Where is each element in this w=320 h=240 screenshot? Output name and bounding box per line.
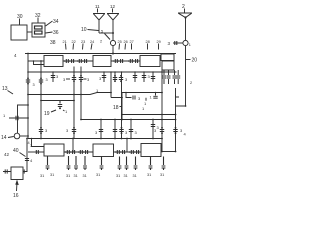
column x153 lower bbox=[152, 120, 154, 139]
label left of SW1 bbox=[100, 40, 102, 44]
svg-text:21: 21 bbox=[63, 40, 67, 44]
middle lattice wire A bbox=[28, 93, 111, 95]
label mid-right bbox=[138, 96, 141, 101]
series cap B2c bbox=[131, 150, 133, 154]
cap stub x155.5 bbox=[153, 93, 157, 99]
series cap C2b bbox=[121, 59, 123, 63]
antenna ANT2 label 12 bbox=[110, 4, 116, 9]
shunt column X5 (x121.5) bbox=[121, 72, 123, 139]
lower lattice wire D bbox=[122, 114, 176, 116]
lower cap on X5 bbox=[119, 130, 123, 132]
label row tick 26 bbox=[157, 40, 161, 44]
svg-text:3: 3 bbox=[138, 96, 141, 101]
svg-text:10: 10 bbox=[81, 27, 87, 33]
svg-text:3: 3 bbox=[95, 130, 98, 135]
series cap C2a bbox=[115, 59, 117, 63]
leader label 13 bbox=[8, 91, 14, 95]
bottom stub S7 bbox=[118, 157, 122, 171]
wire P1 to left bus bbox=[20, 135, 28, 137]
label 40 bbox=[13, 148, 19, 154]
label right of X5 bbox=[125, 77, 128, 82]
svg-text:12: 12 bbox=[110, 4, 116, 9]
antenna ANT2 bbox=[107, 14, 119, 41]
svg-text:3: 3 bbox=[30, 143, 33, 148]
filter F1 bbox=[44, 56, 63, 67]
svg-text:2: 2 bbox=[190, 81, 192, 85]
small mark right of cap x60 bbox=[65, 109, 68, 114]
column X7 (x162) bbox=[161, 70, 163, 152]
leader for label 34 bbox=[46, 21, 53, 26]
series cap C2d bbox=[136, 59, 138, 63]
label 42 bbox=[4, 152, 10, 157]
stub under F2 bbox=[103, 72, 105, 82]
filter F5 bbox=[93, 144, 114, 157]
wire ANT1 to ANT2 column bbox=[99, 32, 113, 34]
svg-text:3: 3 bbox=[148, 74, 151, 79]
label row tick 24c bbox=[130, 40, 134, 44]
duplexer shunt cap d bbox=[176, 70, 180, 84]
label 15a bbox=[144, 101, 147, 106]
label 30 bbox=[17, 14, 23, 20]
label 18 bbox=[113, 105, 119, 111]
stub left of connector with cap bbox=[173, 42, 183, 44]
label left of X2 cap bbox=[63, 77, 66, 82]
wire F2-F3 bbox=[111, 60, 140, 62]
lower lattice wire E bbox=[81, 119, 176, 121]
svg-text:1: 1 bbox=[144, 101, 147, 106]
svg-text:1: 1 bbox=[150, 95, 153, 100]
label 34 bbox=[53, 19, 59, 25]
svg-text:31: 31 bbox=[40, 174, 44, 178]
svg-text:16: 16 bbox=[13, 193, 19, 199]
label right of X1 cap bbox=[46, 78, 48, 82]
label row tick 24a bbox=[118, 40, 122, 44]
svg-text:28: 28 bbox=[146, 40, 150, 44]
duplexer lower box bbox=[162, 61, 174, 70]
switch SW1 (circle) bbox=[110, 40, 115, 45]
middle lattice jog bbox=[111, 72, 162, 98]
label 20 bbox=[192, 58, 198, 64]
svg-text:3: 3 bbox=[66, 128, 69, 133]
shunt column X4 (x115) bbox=[114, 72, 116, 82]
wire F1-F2 bbox=[63, 60, 93, 62]
lower column x115 bbox=[114, 120, 116, 139]
under-box bus bbox=[28, 71, 177, 73]
leader for label 36 bbox=[46, 32, 53, 33]
bottom stub S5 bbox=[83, 156, 87, 170]
label row tick 23b bbox=[72, 40, 76, 44]
shunt cap on X2 upper bbox=[72, 78, 76, 80]
label 15 bbox=[3, 113, 6, 118]
svg-text:31: 31 bbox=[124, 174, 128, 178]
shunt cap on X1 lower bbox=[39, 130, 43, 132]
svg-text:24: 24 bbox=[90, 40, 94, 44]
svg-text:31: 31 bbox=[96, 173, 100, 177]
bottom stub S1 bbox=[46, 156, 50, 170]
wire connector down right side bbox=[185, 46, 187, 106]
wire bus to box 16 bbox=[23, 139, 27, 172]
svg-text:3: 3 bbox=[63, 77, 66, 82]
bottom stub S11 bbox=[162, 157, 166, 171]
svg-text:1: 1 bbox=[3, 113, 6, 118]
label 32 bbox=[35, 13, 41, 19]
left wire with cap bbox=[9, 117, 28, 119]
connector circle right bbox=[183, 40, 188, 45]
label row tick 24b bbox=[124, 40, 128, 44]
lower column x101 bbox=[100, 120, 102, 139]
svg-text:3: 3 bbox=[56, 74, 59, 79]
series cap B1b bbox=[73, 150, 75, 154]
second feed into F4 bbox=[32, 139, 45, 147]
wire F5-F6 bbox=[114, 151, 142, 153]
top bus bbox=[25, 53, 176, 55]
vertical bus-chain link a bbox=[72, 139, 74, 153]
svg-text:18: 18 bbox=[113, 105, 119, 111]
svg-text:2: 2 bbox=[100, 40, 102, 44]
svg-text:4: 4 bbox=[28, 141, 30, 145]
svg-text:31: 31 bbox=[74, 174, 78, 178]
svg-text:31: 31 bbox=[147, 173, 151, 177]
svg-text:1: 1 bbox=[189, 43, 191, 47]
leader label 10 bbox=[88, 30, 99, 31]
leader for label 30 bbox=[19, 19, 21, 25]
label by X5 lower cap bbox=[125, 130, 128, 135]
vertical bus-chain link b bbox=[126, 139, 128, 153]
series cap on left drop bbox=[25, 159, 29, 161]
wire 30-32 bbox=[27, 31, 32, 33]
series cap C1d bbox=[85, 59, 87, 63]
wire left bus to filter F1 bbox=[28, 60, 44, 62]
svg-text:22: 22 bbox=[72, 40, 76, 44]
bottom label S2 bbox=[50, 173, 54, 177]
label 19 bbox=[44, 111, 50, 117]
bottom stub S8 bbox=[125, 157, 129, 171]
leader for label 32 bbox=[37, 18, 39, 23]
leader label 12 bbox=[112, 9, 114, 13]
svg-text:20: 20 bbox=[192, 58, 198, 64]
svg-text:13: 13 bbox=[2, 86, 8, 92]
svg-text:3: 3 bbox=[33, 83, 35, 87]
stub under F3 a bbox=[134, 72, 136, 82]
svg-text:31: 31 bbox=[133, 174, 137, 178]
series cap C2c bbox=[130, 59, 132, 63]
port circle P1 bbox=[14, 133, 20, 139]
duplexer shunt cap a bbox=[162, 70, 166, 84]
bottom chain left bbox=[28, 151, 44, 153]
label below-left caps bbox=[33, 83, 35, 87]
label right of X3 cap bbox=[87, 77, 90, 82]
shunt column X3 (x81) bbox=[80, 67, 82, 120]
svg-text:19: 19 bbox=[44, 111, 50, 117]
svg-text:4: 4 bbox=[14, 53, 17, 58]
svg-text:3: 3 bbox=[99, 76, 102, 81]
svg-text:3: 3 bbox=[87, 77, 90, 82]
series cap B1c bbox=[80, 150, 82, 154]
left sub loop bbox=[18, 105, 29, 133]
label row tick 25 bbox=[146, 40, 150, 44]
column X8 (x175.5) bbox=[175, 106, 177, 152]
shunt cap on X7 lower bbox=[160, 130, 164, 132]
series cap C1c bbox=[79, 59, 81, 63]
wire F6 right bbox=[161, 151, 176, 153]
label near bus corner bbox=[28, 141, 30, 145]
svg-text:29: 29 bbox=[157, 40, 161, 44]
label by X2 lower cap bbox=[66, 128, 69, 133]
shunt column X2 (x74) bbox=[73, 67, 75, 139]
filter F6 bbox=[141, 144, 161, 157]
left port label 13 bbox=[2, 86, 8, 92]
left vertical bus bbox=[27, 54, 29, 139]
column x153 upper stub bbox=[152, 72, 154, 82]
label 41 (left of bus) bbox=[14, 53, 17, 58]
svg-text:31: 31 bbox=[83, 174, 87, 178]
wire F4-F5 bbox=[64, 151, 93, 153]
arrow to box 16 bbox=[16, 181, 18, 191]
label by x131 cap bbox=[135, 130, 138, 135]
label row tick 23c bbox=[81, 40, 85, 44]
lower column x131 bbox=[130, 120, 132, 139]
series cap B0 bbox=[36, 150, 38, 154]
label right edge small bbox=[190, 81, 192, 85]
stub under F1 bbox=[52, 72, 54, 82]
junction ANT3 bbox=[184, 16, 186, 18]
series cap B2b bbox=[123, 150, 125, 154]
duplexer upper box bbox=[161, 54, 174, 61]
cap stub x60 bbox=[58, 101, 62, 107]
bottom stub S9 bbox=[134, 157, 138, 171]
junction top-left bbox=[27, 53, 29, 55]
series cap B1d bbox=[86, 150, 88, 154]
leader label 20 bbox=[186, 59, 191, 61]
svg-text:23: 23 bbox=[81, 40, 85, 44]
box 30 (top-left IC) bbox=[11, 25, 27, 40]
series cap B2d bbox=[137, 150, 139, 154]
leader label 14 bbox=[8, 137, 14, 138]
duplexer shunt cap b bbox=[167, 70, 171, 84]
filter F2 bbox=[93, 56, 111, 67]
label 15c bbox=[142, 106, 145, 111]
component 32 (dual element) bbox=[32, 23, 45, 37]
shunt cap on X3 bbox=[79, 78, 83, 80]
stub under F3 b bbox=[143, 72, 145, 82]
series cap B1a bbox=[67, 150, 69, 154]
label 4 right bbox=[184, 132, 187, 137]
label under F2 bbox=[99, 76, 102, 81]
svg-text:31: 31 bbox=[160, 173, 164, 177]
label by X1 lower cap bbox=[45, 128, 48, 133]
label right of X8 cap bbox=[180, 128, 183, 133]
label left of X7 cap bbox=[154, 128, 157, 133]
filter F3 bbox=[140, 56, 160, 67]
label 14 bbox=[1, 135, 7, 141]
cap stub mid-right bbox=[126, 93, 135, 100]
svg-text:34: 34 bbox=[53, 19, 59, 25]
shunt column X1 (x41) bbox=[40, 61, 42, 139]
svg-text:40: 40 bbox=[13, 148, 19, 154]
svg-text:31: 31 bbox=[116, 174, 120, 178]
box 16 (bottom-left) bbox=[11, 167, 23, 180]
svg-text:3: 3 bbox=[125, 77, 128, 82]
svg-text:25: 25 bbox=[118, 40, 122, 44]
label under F1 bbox=[56, 74, 59, 79]
antenna ANT1 label 11 bbox=[95, 4, 100, 9]
svg-text:3: 3 bbox=[125, 130, 128, 135]
leader label 40 bbox=[20, 153, 26, 157]
series cap B2a bbox=[117, 150, 119, 154]
svg-text:42: 42 bbox=[4, 152, 10, 157]
svg-text:36: 36 bbox=[53, 30, 59, 36]
label 10 bbox=[81, 27, 87, 33]
leader label 2 bbox=[184, 9, 186, 13]
leader to SW1 bbox=[105, 34, 111, 40]
antenna ANT3 label 2 bbox=[182, 4, 185, 10]
shunt cap on X5 bbox=[119, 78, 123, 80]
antenna ANT1 bbox=[93, 14, 105, 34]
svg-text:11: 11 bbox=[95, 4, 100, 9]
bottom stub S3 bbox=[67, 156, 71, 170]
right cap of box 16 bbox=[23, 169, 25, 173]
label by cap bbox=[30, 158, 33, 163]
svg-text:3: 3 bbox=[46, 78, 48, 82]
cap on left vertical bbox=[26, 80, 30, 82]
wire F3 to duplexer bbox=[160, 57, 161, 59]
bottom bus bbox=[28, 138, 162, 140]
svg-text:1: 1 bbox=[142, 106, 145, 111]
svg-text:27: 27 bbox=[130, 40, 134, 44]
svg-text:3: 3 bbox=[45, 128, 48, 133]
U loop right bbox=[176, 95, 186, 106]
svg-text:3: 3 bbox=[157, 125, 160, 130]
junction ANT2 column bbox=[112, 32, 114, 34]
bottom stub S4 bbox=[74, 156, 78, 170]
shunt cap on X2 lower bbox=[72, 130, 76, 132]
label by x153 cap bbox=[157, 125, 160, 130]
label 16 bbox=[13, 193, 19, 199]
shunt cap on X8 bbox=[173, 130, 177, 132]
shunt cap on X4 bbox=[113, 78, 117, 80]
svg-text:4: 4 bbox=[30, 158, 33, 163]
column X6 jog bbox=[121, 98, 123, 120]
junction SW1 bus bbox=[112, 53, 114, 55]
middle lattice wire B junction bbox=[80, 94, 82, 96]
label above SW1 bbox=[101, 30, 103, 34]
leader label 11 bbox=[97, 9, 99, 13]
left stub of box 16 with cap bbox=[3, 169, 11, 173]
svg-text:4: 4 bbox=[184, 132, 187, 137]
shunt cap on X1 upper bbox=[39, 80, 43, 82]
series cap C1a bbox=[66, 59, 68, 63]
second feed into F1 bbox=[34, 61, 45, 65]
label 36 bbox=[53, 30, 59, 36]
svg-text:14: 14 bbox=[1, 135, 7, 141]
label 3 (left of connector) bbox=[168, 41, 171, 46]
filter F4 bbox=[44, 144, 64, 156]
label row tick 23d bbox=[90, 40, 94, 44]
svg-text:1: 1 bbox=[65, 109, 68, 114]
duplexer shunt cap c bbox=[173, 70, 177, 84]
svg-text:3: 3 bbox=[135, 130, 138, 135]
right column upper piece bbox=[176, 88, 180, 97]
label row tick 23a bbox=[63, 40, 67, 44]
svg-text:3: 3 bbox=[168, 41, 171, 46]
bottom stub S6 bbox=[100, 157, 104, 171]
label 38 bbox=[50, 40, 56, 46]
label above B0 bbox=[30, 143, 33, 148]
middle lattice wire C bbox=[41, 100, 74, 102]
antenna ANT3 bbox=[178, 13, 192, 40]
series cap C1b bbox=[72, 59, 74, 63]
mark right of connector bbox=[189, 43, 191, 47]
label 15b bbox=[150, 95, 153, 100]
svg-text:31: 31 bbox=[66, 174, 70, 178]
wire SW1 to top bus bbox=[112, 46, 114, 54]
label under F3 bbox=[148, 74, 151, 79]
svg-text:31: 31 bbox=[50, 173, 54, 177]
svg-text:26: 26 bbox=[124, 40, 128, 44]
label by x101 cap bbox=[95, 130, 98, 135]
label 17 bbox=[96, 88, 99, 93]
svg-text:38: 38 bbox=[50, 40, 56, 46]
svg-text:5: 5 bbox=[101, 30, 103, 34]
bottom stub S10 bbox=[149, 157, 153, 171]
